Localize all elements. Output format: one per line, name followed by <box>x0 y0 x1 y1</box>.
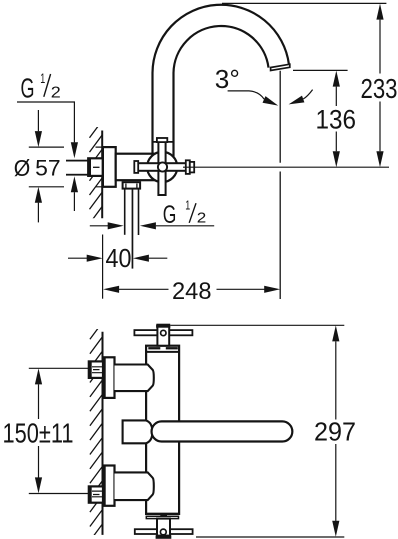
black square (bottom) <box>160 513 167 516</box>
inlet nipple pipe G1/2 <box>66 160 89 162</box>
water stream / extension line <box>279 71 281 299</box>
wall line (front view) <box>102 332 104 535</box>
svg-text:233: 233 <box>361 73 398 104</box>
bottom cross handle (front) bar <box>135 529 193 534</box>
wall extension line <box>102 235 104 299</box>
dim G1/2 (pipe) text <box>163 197 207 229</box>
upper S-union <box>115 365 154 392</box>
svg-text:Ø: Ø <box>14 155 31 181</box>
lower union nut <box>89 486 103 502</box>
svg-text:248: 248 <box>172 278 212 305</box>
dim O57 arrows <box>37 110 39 131</box>
svg-text:57: 57 <box>35 156 61 181</box>
dim O57 ticks <box>29 147 103 187</box>
3 deg leader arcs <box>228 91 265 99</box>
svg-text:2: 2 <box>51 85 61 102</box>
bottom outlet nut <box>123 182 141 188</box>
upper union nut <box>89 361 103 378</box>
dim 136 <box>335 87 337 106</box>
dim 150+-11 <box>38 384 40 419</box>
dim 233 extension line <box>222 2 386 4</box>
bottom bonnet band <box>146 516 178 518</box>
dim 40 <box>68 257 87 259</box>
dim G1/2 (pipe) arrows <box>90 225 108 227</box>
diverter block <box>123 420 153 443</box>
dim 233 <box>379 20 381 74</box>
wall hatching (front view) <box>90 322 103 539</box>
wall line (top side view) <box>101 131 103 219</box>
dim G1/2 (top label) text <box>21 71 61 104</box>
escutcheon flange (side view) <box>103 147 116 187</box>
svg-text:1: 1 <box>40 71 45 86</box>
svg-text:1: 1 <box>185 197 190 212</box>
body bottom line <box>146 513 179 515</box>
upper inlet extension line <box>29 367 90 369</box>
svg-text:G: G <box>163 201 177 229</box>
upper escutcheon <box>105 357 115 398</box>
lower escutcheon <box>105 466 115 506</box>
spout tube inner wall <box>174 26 269 159</box>
lower inlet extension line <box>29 493 90 495</box>
outlet pipe centerline <box>132 189 134 269</box>
union nut at wall <box>88 158 103 176</box>
tub spout (front view capsule) <box>152 421 293 441</box>
svg-text:150±11: 150±11 <box>3 417 74 448</box>
mixer body (front view) <box>146 346 179 514</box>
dim 136 extension line <box>293 69 348 71</box>
bottom handle hub <box>157 519 170 536</box>
top handle hub <box>157 325 169 346</box>
nipple centerline dashes <box>93 166 100 168</box>
dim 297 extension lines <box>171 324 345 326</box>
lower S-union <box>115 472 154 500</box>
spout tube (gooseneck) outer wall <box>153 5 289 157</box>
outlet pipe walls <box>124 189 126 235</box>
dim 297 <box>335 341 337 419</box>
valve body (side view) <box>116 154 162 181</box>
svg-text:136: 136 <box>316 105 357 135</box>
valve cartridge circle <box>147 152 177 182</box>
svg-text:40: 40 <box>106 243 132 273</box>
dim 248 <box>119 288 169 290</box>
svg-text:2: 2 <box>197 210 207 227</box>
svg-text:G: G <box>21 73 35 104</box>
centerline of valve axis <box>183 166 389 168</box>
cross handle vertical bar <box>158 138 165 195</box>
svg-text:297: 297 <box>314 417 356 447</box>
top cross handle (front) bar <box>134 330 192 335</box>
wall hatching (top side view) <box>90 121 103 224</box>
handle hub circle <box>158 162 167 171</box>
valve top line across tube <box>153 141 174 143</box>
dim G1/2 leader <box>17 102 74 142</box>
cross handle horizontal bar <box>135 163 187 171</box>
svg-text:3°: 3° <box>215 64 240 94</box>
spout outlet aerator band (3 deg cut) <box>271 64 290 70</box>
bonnet dark ticks (top) <box>148 347 160 349</box>
